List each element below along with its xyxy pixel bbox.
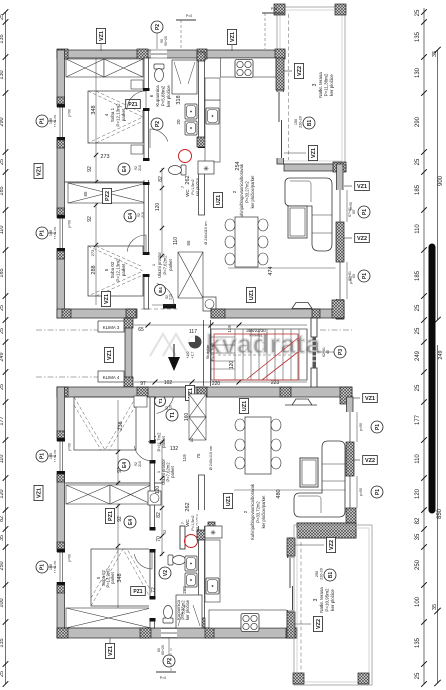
svg-text:25: 25 [0, 159, 5, 165]
b1 dims lower [315, 568, 324, 580]
svg-text:P=33,27m2: P=33,27m2 [245, 181, 250, 203]
svg-text:135: 135 [415, 31, 421, 42]
wardrobe band lower bottom [66, 608, 151, 628]
sliding door [278, 92, 280, 122]
bath lower walls [199, 475, 205, 628]
svg-text:P1: P1 [375, 424, 381, 430]
svg-text:210: 210 [169, 294, 173, 300]
svg-text:160: 160 [184, 413, 190, 422]
label VZ2 terrace lower a [294, 544, 324, 546]
sofa upper [285, 178, 332, 251]
label PZ1 upper bed [126, 100, 141, 109]
corridor dim line upper [160, 168, 164, 258]
wc text [180, 178, 200, 197]
svg-text:100: 100 [49, 230, 53, 236]
living right wall [337, 164, 344, 319]
dining table upper [225, 217, 268, 267]
terrace lower outline [294, 525, 372, 685]
svg-text:10: 10 [189, 437, 194, 442]
mid wardrobe wall PZ2 [65, 181, 148, 183]
svg-text:VZ1: VZ1 [37, 166, 43, 176]
svg-text:110: 110 [173, 237, 179, 245]
svg-text:90+20: 90+20 [164, 36, 168, 46]
svg-text:parket: parket [121, 108, 126, 121]
label VZ2 right h [344, 237, 352, 239]
dishwasher lower [205, 526, 222, 538]
label VZ1 right lower [353, 397, 360, 399]
dim 92/210 a [134, 165, 142, 171]
svg-text:220-20: 220-20 [299, 116, 303, 128]
dim 60/60+20 top [160, 36, 168, 46]
window sills right lower [357, 412, 363, 442]
svg-text:358/22/30: 358/22/30 [246, 328, 266, 333]
P1 dims b [348, 271, 356, 281]
svg-text:ker pločice: ker pločice [330, 589, 335, 611]
svg-text:VZ2: VZ2 [297, 66, 303, 76]
top wall lower [57, 387, 352, 397]
svg-text:p=90: p=90 [359, 488, 363, 496]
door jambs black [143, 88, 150, 91]
svg-text:185: 185 [415, 184, 421, 195]
svg-text:185: 185 [0, 186, 5, 195]
circle E4 lower b [124, 516, 136, 528]
svg-text:110: 110 [0, 226, 5, 235]
svg-text:E4: E4 [122, 166, 128, 172]
label VZ2 terrace [284, 70, 292, 72]
marker 2 top [176, 14, 196, 50]
bath text [149, 85, 171, 107]
svg-text:135: 135 [0, 34, 5, 43]
P1 circle right b [358, 270, 370, 282]
svg-text:P=33,72m2: P=33,72m2 [256, 501, 261, 523]
svg-text:92: 92 [87, 216, 93, 222]
svg-text:P2: P2 [167, 658, 173, 664]
interior dim line upper [94, 58, 98, 305]
svg-text:P=11,38m2: P=11,38m2 [324, 73, 329, 96]
svg-text:102: 102 [164, 380, 173, 386]
svg-text:B1: B1 [307, 120, 313, 127]
svg-text:82: 82 [0, 516, 5, 522]
svg-text:65: 65 [83, 191, 88, 197]
svg-text:220: 220 [212, 381, 221, 387]
svg-text:✳: ✳ [210, 529, 216, 537]
svg-text:P=12,13m2: P=12,13m2 [116, 258, 121, 282]
svg-text:VZ1: VZ1 [104, 294, 110, 304]
corridor dim line lower [160, 440, 164, 556]
P3 dims [322, 347, 330, 357]
circle E4 b [124, 210, 136, 222]
toilet lower bath [163, 606, 173, 624]
b1 circle lower [324, 569, 336, 581]
svg-text:25: 25 [415, 9, 421, 16]
terrace roof dashed line [288, 14, 290, 160]
circle P2 top [151, 21, 163, 33]
step wall lower [297, 523, 356, 538]
svg-text:VZ1: VZ1 [311, 148, 317, 158]
svg-text:P1: P1 [40, 564, 46, 570]
label UZ1 lower b [224, 493, 233, 508]
svg-text:480: 480 [276, 489, 282, 498]
bed Soba 1 lower [74, 397, 136, 450]
window gap a [56, 104, 66, 141]
door jambs lower [150, 440, 156, 444]
svg-text:318: 318 [176, 95, 182, 104]
door gap soba4 [143, 91, 151, 110]
stair red outline [214, 334, 298, 380]
svg-text:25: 25 [415, 384, 421, 391]
svg-text:185: 185 [0, 268, 5, 277]
living bottom-right walls [284, 164, 346, 171]
svg-text:65: 65 [352, 274, 356, 278]
svg-text:parket: parket [170, 465, 175, 477]
coffee table [288, 206, 307, 238]
svg-text:P=0: P=0 [186, 14, 192, 18]
P1 dims a [348, 207, 356, 217]
svg-text:25: 25 [415, 304, 421, 311]
svg-text:150: 150 [294, 119, 298, 125]
label UZ1 upper b [247, 287, 256, 302]
label VZ2 right lower [353, 459, 360, 461]
stove lower [241, 614, 259, 632]
svg-text:P=0: P=0 [271, 7, 277, 11]
svg-text:290: 290 [415, 116, 421, 127]
svg-text:850: 850 [437, 508, 443, 519]
svg-text:parket: parket [168, 258, 173, 270]
svg-text:ker pločice: ker pločice [329, 74, 334, 96]
svg-text:T1: T1 [158, 398, 163, 404]
svg-text:25: 25 [0, 14, 5, 20]
svg-text:E4: E4 [122, 462, 128, 468]
svg-text:UZ1: UZ1 [249, 290, 255, 300]
nightstands lower1 [134, 396, 147, 407]
label VZ1 top a [100, 44, 102, 51]
svg-text:110: 110 [415, 224, 421, 234]
label VZ1 left upper [34, 163, 43, 178]
svg-text:65: 65 [352, 210, 356, 214]
door gap mid [143, 161, 151, 180]
svg-text:55: 55 [186, 240, 191, 246]
label PZ2 [103, 188, 112, 203]
stair window column [313, 337, 317, 368]
circle V2 [159, 567, 171, 579]
svg-text:262: 262 [185, 175, 191, 184]
bottom wall lower [57, 628, 297, 638]
window sills left upper [68, 109, 72, 117]
marker 2 bottom [156, 648, 176, 680]
svg-text:35: 35 [0, 535, 5, 541]
svg-text:VZ2: VZ2 [357, 236, 367, 242]
corridor wall lower [150, 397, 155, 628]
svg-text:ker pločice: ker pločice [185, 599, 190, 620]
lower entry door arc [152, 392, 174, 414]
svg-text:P3: P3 [338, 349, 344, 355]
svg-text:ker pločice/parket: ker pločice/parket [261, 495, 266, 529]
svg-text:92: 92 [162, 529, 167, 534]
kitchen bottom counter [209, 610, 287, 628]
room text Soba 4 [104, 103, 126, 127]
bed Soba 02 [88, 246, 143, 296]
svg-text:25: 25 [0, 671, 5, 677]
svg-text:25: 25 [0, 305, 5, 311]
svg-text:Ø 240x110 cm: Ø 240x110 cm [209, 446, 213, 470]
window marker P1 left [36, 561, 58, 574]
window jamb hatches left lower [57, 431, 65, 438]
stair left wall [204, 320, 211, 386]
svg-text:P1: P1 [40, 230, 46, 236]
terrace text lower [313, 587, 335, 613]
svg-text:250: 250 [415, 559, 421, 570]
svg-text:210: 210 [138, 165, 142, 171]
tv upper [285, 303, 317, 310]
svg-text:135: 135 [415, 637, 421, 648]
svg-text:p=90: p=90 [359, 423, 363, 431]
washbasins lower [185, 556, 197, 571]
wardrobe band Soba 4 [66, 59, 104, 77]
svg-text:185: 185 [415, 270, 421, 281]
bath window bottom wall [161, 629, 177, 638]
swing arcs lower [134, 443, 152, 461]
svg-text:120: 120 [0, 489, 5, 498]
washbasin 1 [185, 104, 197, 119]
dashed door head upper [141, 308, 179, 310]
dashdot landing [320, 329, 352, 331]
svg-text:P1: P1 [362, 273, 368, 279]
svg-text:P1: P1 [362, 209, 368, 215]
label PZ1 lower mid [106, 508, 115, 523]
entry door marker lower [155, 396, 166, 407]
sink [206, 108, 219, 124]
svg-text:117: 117 [189, 329, 197, 335]
svg-text:P=10,95m2: P=10,95m2 [325, 588, 330, 612]
svg-text:273: 273 [90, 249, 95, 256]
svg-text:92: 92 [117, 516, 123, 522]
label VZ2 terrace lower b [294, 623, 311, 625]
svg-text:Ulazni prostor: Ulazni prostor [157, 251, 162, 277]
washing machine upper [203, 297, 216, 311]
dashed door head lower [141, 391, 179, 393]
left dimension chain [0, 9, 8, 687]
dims bottom [157, 645, 165, 655]
svg-text:P1: P1 [375, 489, 381, 495]
svg-text:E4: E4 [158, 287, 163, 293]
terrace pillar NW [274, 4, 285, 15]
label VZ1 mid [105, 347, 114, 362]
bathtub [172, 60, 197, 94]
svg-text:110: 110 [415, 454, 421, 464]
svg-text:120: 120 [415, 488, 421, 499]
terrace pillars lower [293, 673, 304, 684]
entry arrow [168, 357, 180, 371]
dim line upper strip [134, 323, 307, 328]
svg-text:82: 82 [156, 512, 162, 518]
svg-text:parket: parket [110, 571, 115, 583]
label VZ1 bottom lower [109, 638, 111, 644]
label UZ1 [214, 192, 223, 207]
bathtub lower [176, 595, 202, 628]
P1 circle right a [358, 206, 370, 218]
label VZ1 left lower [34, 485, 43, 500]
staircase treads [211, 329, 307, 380]
svg-text:P=1,5m2: P=1,5m2 [191, 179, 195, 194]
label VZ1 bottom bedroom [102, 291, 111, 306]
svg-text:290: 290 [0, 117, 5, 126]
svg-text:250: 250 [0, 561, 5, 570]
svg-text:25: 25 [415, 327, 421, 334]
P1 circles right lower [371, 421, 383, 433]
interior dim line lower [116, 400, 120, 628]
svg-text:WC: WC [185, 519, 190, 527]
svg-text:35: 35 [432, 51, 438, 57]
svg-text:B1: B1 [328, 572, 334, 579]
window sills left lower [68, 443, 72, 451]
svg-text:25: 25 [415, 158, 421, 165]
svg-text:UZ1: UZ1 [242, 401, 248, 411]
wc text lower [180, 514, 200, 532]
top wall hatched blocks [57, 49, 68, 59]
kitchen side counter [205, 100, 220, 162]
svg-text:p=90: p=90 [68, 220, 72, 228]
svg-text:p=90: p=90 [68, 554, 72, 562]
svg-text:KLIMA 3: KLIMA 3 [103, 325, 120, 330]
hatch blocks bath wall [197, 52, 205, 61]
room text Soba02 lower [96, 568, 115, 588]
dim line 480 [234, 489, 350, 491]
svg-text:220-20: 220-20 [320, 568, 324, 580]
right outer wall lower [347, 397, 354, 523]
svg-text:177: 177 [415, 414, 421, 425]
dim line lower strip [134, 380, 307, 385]
nightstands Soba4 [131, 80, 143, 89]
terrace upper outline [277, 7, 345, 164]
svg-text:VZ1: VZ1 [37, 488, 43, 498]
svg-text:P=0: P=0 [160, 676, 166, 680]
svg-text:P2: P2 [155, 121, 161, 127]
dim 92/210 b [137, 212, 145, 218]
right overall dimension 900 [432, 47, 444, 323]
bedroom bottom wall [57, 309, 137, 318]
corridor wall bedrooms [144, 58, 149, 309]
svg-text:parket: parket [121, 263, 126, 276]
svg-text:82: 82 [415, 517, 421, 524]
svg-text:177: 177 [0, 416, 5, 425]
dims 92/210 lower [134, 461, 142, 467]
svg-text:262: 262 [185, 502, 191, 511]
KLIMA 4 box [98, 371, 124, 382]
KLIMA 3 box [98, 321, 124, 332]
svg-text:238: 238 [118, 421, 124, 430]
circle P2 bottom [163, 655, 175, 667]
svg-text:✳: ✳ [203, 165, 209, 173]
corner hatch bottom a [62, 309, 71, 318]
svg-text:900: 900 [438, 175, 444, 186]
sofa lower [294, 441, 345, 517]
svg-text:VZ1: VZ1 [230, 32, 236, 42]
svg-text:210: 210 [141, 212, 145, 218]
swing arc soba02 [127, 235, 146, 254]
svg-text:T1: T1 [170, 412, 176, 418]
section cut bar [429, 247, 436, 510]
svg-text:20: 20 [176, 119, 181, 125]
coffee table lower [300, 458, 318, 487]
svg-text:250: 250 [315, 571, 319, 577]
toilet upper bath [154, 64, 164, 82]
entry door marker upper [155, 285, 166, 296]
sliding door lower [289, 558, 291, 588]
circle E4 lower a [118, 459, 130, 471]
bath window top wall [151, 50, 167, 59]
kitchen text [232, 163, 255, 220]
svg-text:VZ2: VZ2 [329, 540, 335, 550]
washing machine lower [148, 491, 161, 505]
tv lower [285, 399, 317, 405]
svg-text:Kupaonica: Kupaonica [155, 85, 160, 107]
svg-text:p=90: p=90 [68, 443, 72, 451]
svg-text:VZ1: VZ1 [107, 350, 113, 360]
svg-text:VZ1: VZ1 [365, 396, 375, 402]
svg-text:PV/H/B1: PV/H/B1 [249, 334, 262, 338]
svg-text:25: 25 [0, 328, 5, 334]
svg-text:82: 82 [158, 176, 164, 182]
svg-text:P1: P1 [40, 118, 46, 124]
P3 circle [334, 346, 346, 358]
svg-text:Soba 1: Soba 1 [110, 107, 115, 122]
svg-text:120: 120 [155, 203, 161, 212]
P3 leader [317, 351, 334, 353]
label PZ1 lower b [131, 587, 146, 596]
label VZ1 top b [231, 45, 233, 51]
left outer wall [57, 50, 65, 318]
svg-text:130: 130 [0, 70, 5, 79]
svg-text:Natkr. terasa: Natkr. terasa [319, 587, 324, 613]
svg-text:249: 249 [0, 352, 5, 361]
living bottom wall [211, 309, 344, 318]
svg-text:110: 110 [0, 455, 5, 464]
terrace pillar NE [335, 4, 346, 15]
svg-text:P=1,5m2: P=1,5m2 [191, 515, 195, 530]
b1 circle [303, 117, 315, 129]
svg-text:UZ1: UZ1 [216, 195, 222, 205]
svg-text:PZ1: PZ1 [133, 589, 142, 595]
entry threshold lower [163, 389, 176, 394]
kitchen pier hatch lower [208, 522, 215, 531]
svg-text:P1: P1 [40, 453, 46, 459]
window marker P1 left [36, 115, 58, 128]
plus levels [186, 351, 195, 358]
window gap c [56, 438, 66, 475]
room text Soba1 lower [147, 432, 166, 452]
window marker P1 left [36, 450, 58, 463]
window jamb hatches left upper [57, 97, 65, 104]
svg-text:210: 210 [138, 461, 142, 467]
b1 dims [294, 116, 303, 128]
bed Soba 4 [88, 91, 143, 143]
svg-text:Kuhinja/blagovaonica/boravak: Kuhinja/blagovaonica/boravak [250, 483, 255, 540]
red circle boiler lower [185, 535, 198, 548]
corner hatch bottom b [126, 309, 136, 318]
dining table lower [235, 417, 281, 474]
stair text [205, 342, 215, 361]
svg-text:249: 249 [415, 350, 421, 361]
svg-text:+2,7: +2,7 [191, 351, 195, 358]
svg-text:100: 100 [49, 453, 53, 459]
svg-text:VZ2: VZ2 [365, 458, 375, 464]
svg-text:35: 35 [415, 533, 421, 540]
bath text lower [176, 599, 190, 620]
svg-text:130: 130 [415, 67, 421, 78]
red circle boiler [179, 150, 192, 163]
svg-text:100: 100 [49, 564, 53, 570]
svg-text:348: 348 [117, 573, 123, 582]
